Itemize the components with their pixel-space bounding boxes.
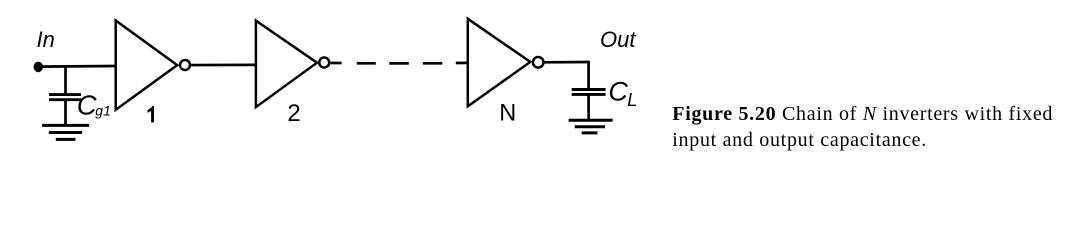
capacitor C_g1 bottom plate bbox=[49, 98, 81, 101]
svg-text:Out: Out bbox=[600, 27, 636, 52]
capacitor C_L top plate bbox=[572, 88, 606, 91]
ground (below Cg1) bbox=[42, 125, 89, 139]
svg-text:N: N bbox=[499, 100, 516, 127]
svg-text:input and output capacitance.: input and output capacitance. bbox=[672, 129, 927, 151]
svg-text:g1: g1 bbox=[95, 103, 111, 119]
capacitor C_g1 top plate bbox=[49, 93, 81, 96]
inverter N bubble bbox=[533, 57, 544, 68]
wire input to inverter 1 bbox=[38, 65, 117, 68]
label 1 bbox=[148, 106, 154, 123]
inverter 2 triangle bbox=[256, 21, 317, 108]
svg-text:Figure 5.20 Chain of N inverte: Figure 5.20 Chain of N inverters with fi… bbox=[672, 103, 1053, 125]
svg-text:C: C bbox=[77, 90, 97, 121]
svg-text:C: C bbox=[608, 77, 628, 107]
svg-text:2: 2 bbox=[287, 100, 300, 127]
svg-text:L: L bbox=[627, 90, 637, 110]
inverter 2 bubble bbox=[319, 58, 329, 68]
svg-text:In: In bbox=[37, 27, 55, 52]
wire inverter N to output corner bbox=[545, 61, 589, 64]
dashed wire inverter 2 to inverter N bbox=[331, 62, 342, 65]
wire CL to ground bbox=[587, 95, 590, 120]
wire junction drop to Cg1 bbox=[64, 66, 67, 93]
node In dot bbox=[34, 62, 43, 73]
capacitor C_L bottom plate bbox=[572, 93, 606, 96]
wire output corner drop to CL bbox=[587, 61, 590, 88]
wire inverter 1 to inverter 2 bbox=[191, 64, 256, 67]
inverter 1 bubble bbox=[180, 60, 190, 70]
inverter 1 triangle bbox=[116, 21, 178, 110]
ground (below CL) bbox=[569, 120, 613, 133]
wire Cg1 to ground bbox=[64, 100, 67, 125]
inverter N triangle bbox=[468, 19, 531, 107]
